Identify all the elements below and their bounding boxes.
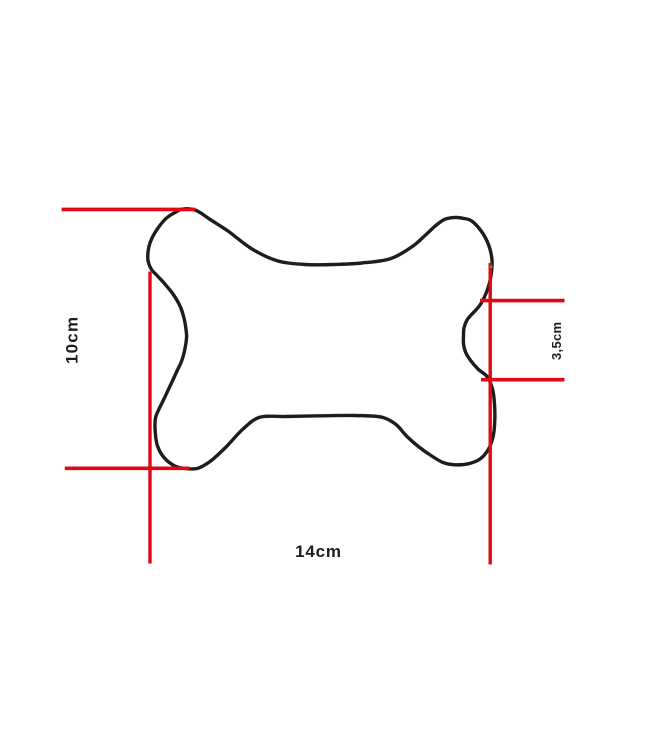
svg-text:10cm: 10cm	[63, 316, 82, 364]
svg-text:3,5cm: 3,5cm	[549, 322, 564, 360]
svg-text:14cm: 14cm	[295, 542, 342, 561]
